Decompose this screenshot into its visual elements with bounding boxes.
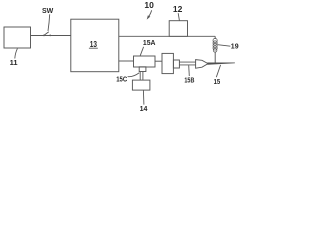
svg-text:14: 14 xyxy=(140,106,148,111)
wire pair to 14 xyxy=(139,72,141,81)
svg-text:15A: 15A xyxy=(143,38,156,47)
svg-text:SW: SW xyxy=(42,8,54,15)
leader SW xyxy=(48,14,50,31)
svg-text:10: 10 xyxy=(144,0,154,10)
label 15B xyxy=(184,75,194,84)
leader 15B xyxy=(188,65,191,76)
leader 12 xyxy=(178,13,179,20)
box 14 xyxy=(132,80,150,90)
needle 15 xyxy=(207,63,235,65)
leader 15 xyxy=(216,65,220,77)
box 13 xyxy=(71,19,119,71)
step block xyxy=(173,60,179,68)
label 19 xyxy=(231,44,239,51)
leader 15C xyxy=(128,73,140,77)
leader 11 xyxy=(15,49,18,59)
label 15A xyxy=(143,38,156,47)
rod bottom xyxy=(179,64,195,66)
switch contacts xyxy=(43,35,45,37)
label 13 underlined xyxy=(90,40,98,49)
box 15C connector xyxy=(139,67,146,72)
wire down to coil xyxy=(214,36,216,39)
arrow 10 xyxy=(149,10,152,16)
label 15C xyxy=(116,74,127,83)
box 11 xyxy=(4,27,31,48)
label 12 xyxy=(173,4,183,14)
label 15 xyxy=(214,77,221,86)
svg-text:12: 12 xyxy=(173,4,183,14)
switch SW lever xyxy=(43,32,48,36)
svg-text:19: 19 xyxy=(231,44,239,51)
svg-text:15: 15 xyxy=(214,77,221,86)
svg-text:11: 11 xyxy=(10,58,18,67)
cone holder xyxy=(196,60,208,69)
label 11 xyxy=(10,58,18,67)
leader 15A xyxy=(140,47,143,56)
svg-text:15C: 15C xyxy=(116,74,127,83)
svg-text:13: 13 xyxy=(90,40,98,49)
body block xyxy=(162,53,173,73)
leader 19 xyxy=(218,45,231,47)
rod top xyxy=(179,61,195,63)
label SW xyxy=(42,8,54,15)
wire coil-needle xyxy=(214,52,216,64)
coil 19 xyxy=(213,38,217,52)
box 12 xyxy=(169,21,187,37)
wire 13-12-19 xyxy=(119,35,215,37)
label 10 xyxy=(144,0,154,10)
leader 14 xyxy=(142,90,145,104)
box 15A xyxy=(134,56,156,67)
wire 15A-body xyxy=(155,60,162,62)
svg-text:15B: 15B xyxy=(184,75,194,84)
wire 13-15A xyxy=(119,60,134,62)
wire 11-SW xyxy=(31,35,71,37)
label 14 xyxy=(140,106,148,113)
